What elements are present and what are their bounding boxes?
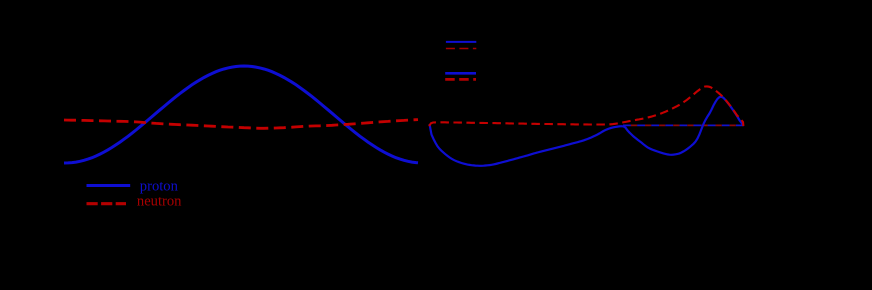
- middle legend line 4 red dashed thick: [445, 78, 476, 81]
- right panel zero line maroon dashes: [631, 124, 744, 126]
- bottom legend neutron line: [87, 202, 127, 205]
- right panel zero line blue dashes: [623, 124, 744, 126]
- middle legend line 1 blue solid thin: [446, 41, 476, 43]
- bottom legend proton line: [87, 184, 131, 187]
- svg-text:proton: proton: [140, 178, 179, 194]
- right panel neutron curve (red dashed): [429, 86, 743, 126]
- left panel proton curve (blue solid): [64, 66, 418, 163]
- svg-text:neutron: neutron: [137, 194, 182, 210]
- middle legend line 2 red dashed thin: [446, 48, 476, 50]
- left panel neutron curve (red dashed): [64, 120, 418, 129]
- middle legend line 3 blue solid thick: [445, 72, 476, 75]
- right panel proton curve (blue solid): [430, 97, 743, 166]
